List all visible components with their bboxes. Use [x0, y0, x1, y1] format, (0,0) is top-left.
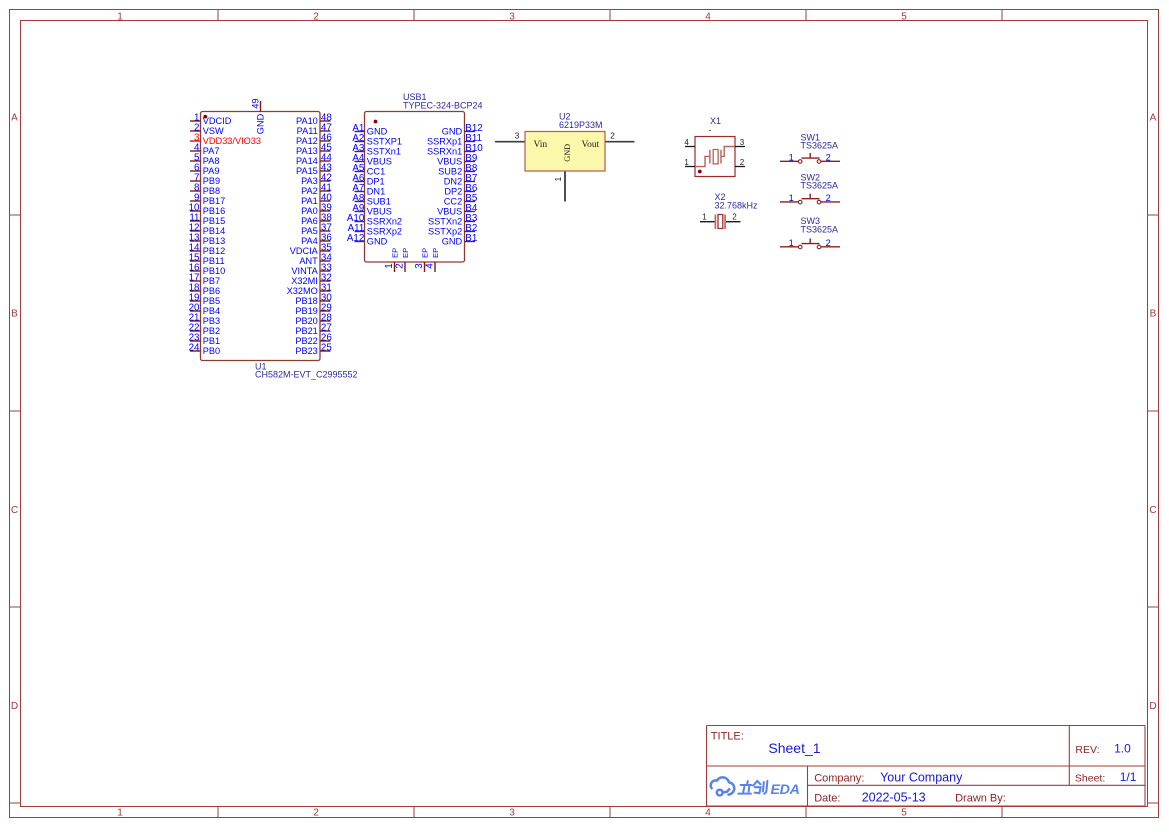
svg-text:REV:: REV: — [1075, 744, 1099, 756]
svg-text:SSTXn2: SSTXn2 — [428, 217, 462, 227]
pushbutton SW2 TS3625A — [780, 172, 840, 204]
svg-text:3: 3 — [509, 807, 515, 818]
svg-text:PB14: PB14 — [203, 226, 225, 236]
svg-text:Vout: Vout — [582, 140, 600, 150]
regulator U2 6219P33M — [515, 112, 616, 182]
svg-text:PB7: PB7 — [203, 276, 220, 286]
svg-text:PB8: PB8 — [203, 186, 220, 196]
svg-text:VDCID: VDCID — [203, 116, 232, 126]
svg-text:1: 1 — [384, 263, 395, 268]
svg-text:GND: GND — [563, 144, 572, 162]
connector USB1 TYPEC-324-BCP24 — [347, 92, 483, 272]
svg-text:PB6: PB6 — [203, 286, 220, 296]
svg-text:1: 1 — [117, 11, 123, 22]
svg-text:C: C — [1149, 505, 1156, 516]
svg-text:Your Company: Your Company — [880, 770, 963, 784]
svg-text:PB10: PB10 — [203, 266, 225, 276]
svg-text:SSTXn1: SSTXn1 — [367, 147, 401, 157]
svg-text:1: 1 — [117, 807, 123, 818]
svg-text:2: 2 — [826, 193, 831, 203]
svg-text:B: B — [11, 309, 18, 320]
svg-text:D: D — [1149, 701, 1156, 712]
svg-text:PA5: PA5 — [301, 226, 318, 236]
wire from USB1 side to U2 Vin — [495, 141, 525, 143]
svg-text:PB13: PB13 — [203, 236, 225, 246]
svg-text:PA3: PA3 — [301, 176, 318, 186]
svg-text:5: 5 — [901, 807, 907, 818]
svg-text:Date:: Date: — [814, 793, 840, 805]
svg-text:X32MO: X32MO — [287, 286, 318, 296]
svg-text:TS3625A: TS3625A — [801, 181, 839, 191]
svg-text:Sheet_1: Sheet_1 — [768, 740, 820, 756]
svg-text:PB0: PB0 — [203, 346, 220, 356]
svg-text:PB22: PB22 — [295, 336, 317, 346]
svg-text:2: 2 — [610, 131, 615, 141]
svg-text:VINTA: VINTA — [291, 266, 318, 276]
svg-text:32.768kHz: 32.768kHz — [715, 201, 759, 211]
wire U2 GND stub down — [564, 171, 566, 202]
svg-text:PA10: PA10 — [296, 116, 318, 126]
svg-text:Sheet:: Sheet: — [1075, 773, 1105, 785]
svg-text:3: 3 — [414, 263, 425, 269]
svg-text:DP2: DP2 — [444, 187, 462, 197]
svg-text:ANT: ANT — [299, 256, 318, 266]
svg-text:X32MI: X32MI — [291, 276, 318, 286]
svg-text:2: 2 — [826, 238, 831, 248]
pushbutton SW1 TS3625A — [780, 132, 840, 163]
svg-text:4: 4 — [684, 138, 689, 147]
svg-text:EDA: EDA — [771, 782, 800, 798]
svg-text:4: 4 — [705, 807, 711, 818]
svg-text:PB15: PB15 — [203, 216, 225, 226]
svg-text:49: 49 — [251, 98, 261, 108]
svg-text:GND: GND — [367, 127, 388, 137]
svg-text:PB1: PB1 — [203, 336, 220, 346]
svg-text:C: C — [11, 505, 18, 516]
svg-text:GND: GND — [442, 237, 463, 247]
svg-text:CC2: CC2 — [444, 197, 462, 207]
svg-text:SSTXp2: SSTXp2 — [428, 227, 462, 237]
svg-text:VDD33/VIO33: VDD33/VIO33 — [203, 136, 261, 146]
svg-text:PA9: PA9 — [203, 166, 220, 176]
svg-text:VBUS: VBUS — [367, 157, 392, 167]
svg-text:1: 1 — [702, 212, 707, 221]
svg-text:DP1: DP1 — [367, 177, 385, 187]
svg-text:PA14: PA14 — [296, 156, 318, 166]
svg-text:TYPEC-324-BCP24: TYPEC-324-BCP24 — [403, 101, 483, 111]
svg-text:VDCIA: VDCIA — [290, 246, 319, 256]
svg-text:PA0: PA0 — [301, 206, 318, 216]
title block lines — [707, 726, 1146, 807]
svg-text:TITLE:: TITLE: — [711, 731, 744, 743]
svg-text:1: 1 — [789, 153, 794, 163]
svg-text:VBUS: VBUS — [437, 157, 462, 167]
zone row letters — [11, 113, 1157, 712]
svg-text:VBUS: VBUS — [437, 207, 462, 217]
svg-text:GND: GND — [367, 237, 388, 247]
svg-text:SUB2: SUB2 — [438, 167, 462, 177]
svg-text:24: 24 — [189, 343, 200, 354]
svg-text:B1: B1 — [465, 233, 477, 244]
svg-text:GND: GND — [255, 113, 265, 134]
svg-text:PA2: PA2 — [301, 186, 318, 196]
svg-text:PB20: PB20 — [295, 316, 317, 326]
svg-text:B: B — [1150, 309, 1157, 320]
svg-text:PB12: PB12 — [203, 246, 225, 256]
svg-text:PB4: PB4 — [203, 306, 220, 316]
svg-text:TS3625A: TS3625A — [801, 225, 839, 235]
svg-text:2: 2 — [313, 807, 319, 818]
svg-text:2: 2 — [313, 11, 319, 22]
svg-text:GND: GND — [442, 127, 463, 137]
svg-text:1.0: 1.0 — [1114, 742, 1131, 756]
svg-text:PB3: PB3 — [203, 316, 220, 326]
IC U1 CH582M-EVT_C2995552 — [189, 98, 358, 379]
svg-text:SUB1: SUB1 — [367, 197, 391, 207]
svg-text:PB17: PB17 — [203, 196, 225, 206]
svg-text:SSRXp1: SSRXp1 — [427, 137, 462, 147]
svg-text:PA11: PA11 — [297, 126, 318, 136]
svg-text:2: 2 — [395, 263, 406, 268]
svg-text:1: 1 — [789, 238, 794, 248]
svg-text:SSTXP1: SSTXP1 — [367, 137, 402, 147]
svg-text:1: 1 — [553, 177, 563, 182]
svg-text:2: 2 — [732, 212, 737, 221]
svg-text:CC1: CC1 — [367, 167, 385, 177]
svg-text:PB2: PB2 — [203, 326, 220, 336]
svg-text:A12: A12 — [347, 233, 364, 244]
svg-text:EP: EP — [401, 248, 410, 258]
svg-text:EP: EP — [390, 248, 399, 258]
svg-text:A: A — [11, 113, 18, 124]
svg-text:DN2: DN2 — [444, 177, 462, 187]
svg-text:PA4: PA4 — [301, 236, 318, 246]
wire from U2 Vout to the right — [605, 141, 635, 143]
svg-text:PA15: PA15 — [296, 166, 318, 176]
svg-text:PB16: PB16 — [203, 206, 225, 216]
svg-text:1/1: 1/1 — [1120, 770, 1137, 784]
svg-text:6219P33M: 6219P33M — [559, 120, 603, 130]
svg-text:25: 25 — [321, 343, 332, 354]
svg-text:A: A — [1150, 113, 1157, 124]
svg-text:EP: EP — [420, 248, 429, 258]
svg-text:CH582M-EVT_C2995552: CH582M-EVT_C2995552 — [255, 370, 358, 380]
svg-text:EP: EP — [431, 248, 440, 258]
pushbutton SW3 TS3625A — [780, 216, 840, 249]
svg-text:1: 1 — [684, 158, 689, 167]
crystal X2 32.768kHz — [700, 192, 758, 229]
svg-text:PA12: PA12 — [296, 136, 318, 146]
svg-text:3: 3 — [740, 138, 745, 147]
svg-text:X1: X1 — [710, 116, 721, 126]
svg-text:PB21: PB21 — [295, 326, 317, 336]
svg-text:SSRXp2: SSRXp2 — [367, 227, 402, 237]
svg-text:5: 5 — [901, 11, 907, 22]
svg-text:4: 4 — [425, 263, 436, 269]
svg-text:VBUS: VBUS — [367, 207, 392, 217]
svg-text:DN1: DN1 — [367, 187, 385, 197]
svg-text:PA1: PA1 — [301, 196, 318, 206]
svg-text:4: 4 — [705, 11, 711, 22]
svg-text:PA7: PA7 — [203, 146, 220, 156]
svg-text:Drawn By:: Drawn By: — [955, 793, 1006, 805]
U1 pin 49 GND top pin — [260, 101, 262, 112]
svg-text:PB5: PB5 — [203, 296, 220, 306]
svg-text:PB18: PB18 — [295, 296, 317, 306]
svg-text:2022-05-13: 2022-05-13 — [862, 791, 926, 805]
svg-text:-: - — [709, 125, 712, 135]
svg-text:PA13: PA13 — [296, 146, 318, 156]
svg-text:SSRXn2: SSRXn2 — [367, 217, 402, 227]
svg-text:3: 3 — [515, 131, 520, 141]
svg-text:Company:: Company: — [814, 772, 864, 784]
svg-text:3: 3 — [509, 11, 515, 22]
svg-text:SSRXn1: SSRXn1 — [427, 147, 462, 157]
svg-text:Vin: Vin — [534, 140, 548, 150]
USB1 bottom EP pins 1-4 — [394, 262, 396, 272]
svg-text:PB9: PB9 — [203, 176, 220, 186]
LCEDA logo chinese text (drawn strokes) — [738, 781, 767, 794]
svg-text:TS3625A: TS3625A — [801, 141, 839, 151]
svg-text:PA8: PA8 — [203, 156, 220, 166]
X1 inner crystal symbol — [695, 147, 735, 167]
svg-text:PB19: PB19 — [295, 306, 317, 316]
crystal X1 (4-pin) — [684, 116, 745, 177]
svg-text:PB11: PB11 — [203, 256, 225, 266]
svg-text:D: D — [11, 701, 18, 712]
zone column numbers — [117, 11, 907, 818]
svg-text:1: 1 — [789, 193, 794, 203]
LCEDA logo cloud — [711, 777, 735, 795]
svg-text:PA6: PA6 — [301, 216, 318, 226]
svg-text:2: 2 — [740, 158, 745, 167]
svg-text:2: 2 — [826, 153, 831, 163]
svg-text:VSW: VSW — [203, 126, 224, 136]
svg-text:PB23: PB23 — [295, 346, 317, 356]
